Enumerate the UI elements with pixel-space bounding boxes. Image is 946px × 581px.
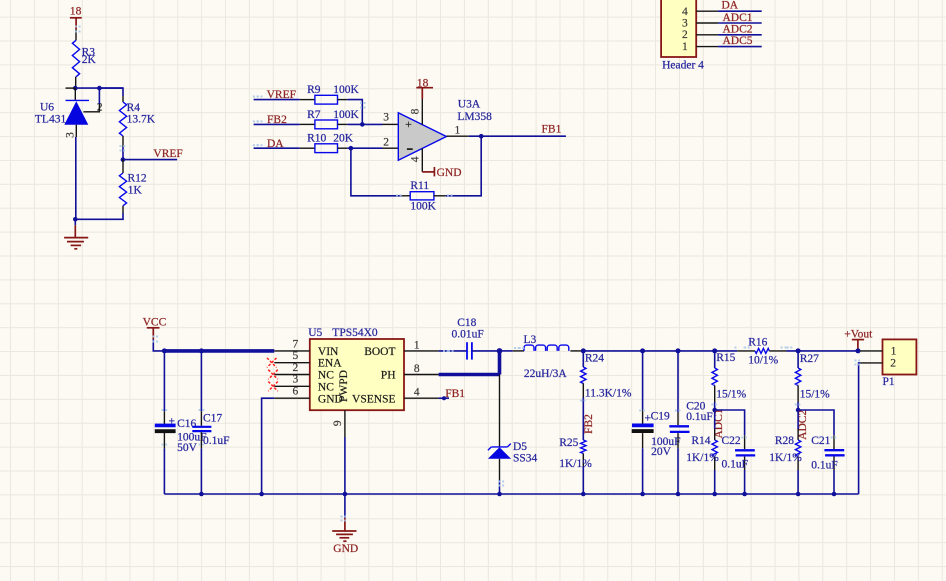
svg-text:FB1: FB1: [542, 123, 562, 135]
wire: [499, 459, 501, 494]
compile marks: [75, 26, 860, 522]
svg-text:ENA: ENA: [318, 358, 342, 370]
wire to D5: [499, 375, 501, 447]
wire: [254, 123, 315, 125]
wire pin3 of U6: [75, 125, 78, 220]
node junction rail R14: [712, 492, 717, 497]
svg-text:R12: R12: [128, 172, 147, 184]
svg-text:18: 18: [70, 6, 82, 18]
node junction C16: [162, 348, 167, 353]
wire feedback: [351, 148, 410, 196]
wire to R4: [99, 88, 123, 102]
capacitor C18: [439, 317, 500, 360]
svg-text:3: 3: [383, 112, 389, 124]
diode D5 SS34: [488, 441, 538, 465]
svg-text:VIN: VIN: [318, 346, 339, 358]
svg-text:ADC2: ADC2: [723, 24, 753, 36]
svg-text:ADC2: ADC2: [797, 410, 809, 440]
svg-text:2: 2: [293, 362, 299, 374]
svg-text:1: 1: [891, 346, 897, 358]
wire pin2 of U6: [83, 88, 99, 112]
svg-text:0.1uF: 0.1uF: [722, 459, 749, 471]
svg-text:TPS54X0: TPS54X0: [332, 327, 378, 339]
svg-text:GND: GND: [437, 167, 462, 179]
svg-text:SS34: SS34: [513, 453, 538, 465]
svg-text:C16: C16: [177, 418, 196, 430]
pin 2: [696, 34, 718, 36]
svg-text:VCC: VCC: [143, 316, 167, 328]
svg-text:0.1uF: 0.1uF: [686, 411, 713, 423]
svg-text:PH: PH: [381, 370, 396, 382]
op-amp U5 TPS54X0 body: [308, 327, 404, 410]
svg-text:15/1%: 15/1%: [716, 389, 746, 401]
node junction PH/BOOT: [497, 348, 503, 354]
wire L3 to R24 node: [570, 350, 581, 352]
svg-text:P1: P1: [883, 376, 895, 388]
resistor R27: [795, 351, 830, 410]
node junction: [349, 146, 354, 151]
wire output pin 1: [446, 135, 566, 137]
svg-text:R14: R14: [691, 435, 710, 447]
capacitor C17: [192, 351, 229, 494]
node ground junction: [73, 217, 78, 222]
svg-text:22uH/3A: 22uH/3A: [524, 368, 568, 380]
pin 6 GND: [274, 397, 310, 399]
svg-text:8: 8: [414, 363, 420, 375]
svg-text:NC: NC: [318, 381, 334, 393]
transistor U6 TL431: [35, 88, 103, 138]
pin 1 P1: [860, 350, 883, 352]
svg-text:BOOT: BOOT: [364, 346, 395, 358]
wire top rail right: [787, 350, 861, 352]
node junction ADC1: [712, 408, 717, 413]
resistor R15: [712, 351, 747, 410]
svg-text:2: 2: [383, 136, 389, 148]
wire BOOT to L3: [500, 350, 513, 352]
power port VCC: [143, 316, 167, 339]
svg-text:2: 2: [890, 358, 896, 370]
svg-text:100K: 100K: [410, 200, 436, 212]
svg-text:20K: 20K: [333, 133, 354, 145]
svg-text:R16: R16: [748, 337, 767, 349]
pin 3 NC: [274, 385, 310, 387]
node junction rail R25: [581, 492, 586, 497]
svg-text:GND: GND: [333, 543, 358, 555]
resistor R28: [769, 410, 802, 494]
svg-text:3: 3: [293, 374, 299, 386]
ground (left): [64, 219, 88, 249]
node junction rail C17: [199, 492, 204, 497]
node junction ADC2: [796, 408, 801, 413]
svg-text:FB2: FB2: [583, 414, 595, 434]
svg-text:0.1uF: 0.1uF: [811, 459, 838, 471]
connector P1: [883, 339, 917, 388]
wire ADC1: [718, 22, 762, 24]
capacitor C20: [669, 351, 712, 494]
svg-text:1: 1: [455, 124, 461, 136]
wire VREF: [123, 159, 177, 161]
svg-text:6: 6: [293, 386, 299, 398]
svg-text:U3A: U3A: [458, 99, 481, 111]
node junction 1: [73, 86, 78, 91]
svg-text:R28: R28: [775, 435, 794, 447]
svg-text:1K/1%: 1K/1%: [686, 452, 719, 464]
node junction rail C22: [742, 492, 747, 497]
svg-text:4: 4: [410, 156, 422, 162]
wire: [254, 99, 315, 101]
svg-text:C22: C22: [722, 435, 741, 447]
wire GND branch: [262, 398, 275, 494]
node junction rail C20: [676, 492, 681, 497]
resistor R4: [119, 102, 155, 136]
svg-text:D5: D5: [513, 441, 527, 453]
svg-text:FB1: FB1: [445, 388, 465, 400]
node junction rail R28: [796, 492, 801, 497]
svg-text:Header 4: Header 4: [662, 60, 704, 72]
wire: [75, 77, 77, 88]
svg-text:ADC1: ADC1: [723, 12, 753, 24]
pin 8 PH: [404, 374, 439, 376]
pin 4: [696, 10, 718, 12]
node junction R15: [712, 348, 717, 353]
no-connect X pin 3: [268, 382, 278, 392]
node junction R27: [796, 348, 801, 353]
svg-text:R9: R9: [307, 84, 321, 96]
wire pin 8: [421, 99, 423, 125]
pin 2 P1: [860, 362, 882, 364]
svg-text:8: 8: [409, 108, 421, 114]
svg-text:20V: 20V: [651, 446, 672, 458]
svg-text:VREF: VREF: [153, 148, 182, 160]
svg-text:NC: NC: [318, 370, 334, 382]
svg-text:1K: 1K: [128, 185, 143, 197]
svg-text:1: 1: [682, 41, 688, 53]
no-connect X pin 5: [267, 358, 277, 368]
svg-text:3: 3: [682, 17, 688, 29]
svg-text:C18: C18: [457, 317, 476, 329]
svg-text:R7: R7: [307, 109, 321, 121]
svg-text:VSENSE: VSENSE: [352, 393, 395, 405]
svg-text:+: +: [169, 415, 176, 427]
svg-text:R27: R27: [800, 353, 819, 365]
capacitor C22: [715, 410, 756, 494]
node junction rail D5: [497, 492, 502, 497]
svg-text:ADC5: ADC5: [723, 35, 753, 47]
resistor R12: [119, 172, 147, 205]
resistor R3: [72, 40, 96, 77]
node junction: [360, 122, 365, 127]
resistor R16: [737, 337, 786, 367]
node junction rail C19: [640, 492, 645, 497]
node junction C20: [676, 348, 681, 353]
ground GND (bottom): [332, 494, 358, 555]
wire cathode node: [75, 87, 123, 89]
svg-text:10/1%: 10/1%: [748, 355, 778, 367]
wire thick VIN: [164, 349, 274, 353]
power port 18 (left): [70, 6, 82, 30]
svg-text:4: 4: [414, 387, 420, 399]
capacitor C19: [632, 351, 681, 494]
node VREF junction: [121, 157, 126, 162]
node junction rail pin9: [343, 492, 348, 497]
power port GND (op-amp): [422, 167, 461, 179]
svg-text:2: 2: [682, 29, 688, 41]
connector Header 4: [661, 0, 704, 72]
pin 1 BOOT: [404, 350, 439, 352]
no-connect X pin 2: [268, 370, 278, 380]
node junction C19: [640, 348, 645, 353]
power port +Vout: [844, 329, 873, 351]
node junction: [479, 134, 484, 139]
svg-text:DA: DA: [722, 0, 739, 11]
svg-text:1: 1: [414, 339, 420, 351]
svg-text:R11: R11: [410, 180, 429, 192]
svg-text:U5: U5: [308, 327, 322, 339]
pin 5 ENA: [274, 362, 310, 364]
svg-text:3: 3: [64, 132, 76, 138]
node junction R24: [581, 348, 586, 353]
capacitor C16: [155, 351, 207, 494]
pin 9: [332, 410, 345, 494]
resistor R7: [307, 109, 359, 129]
wire ADC2: [718, 34, 762, 36]
resistor R11: [410, 180, 436, 212]
node junction rail C21: [832, 492, 837, 497]
svg-text:100K: 100K: [333, 84, 359, 96]
svg-text:50V: 50V: [177, 442, 198, 454]
inductor L3: [524, 334, 569, 380]
svg-text:0.1uF: 0.1uF: [203, 435, 230, 447]
wire FB1 stub: [439, 396, 449, 400]
wire top rail: [583, 350, 737, 352]
wire to op-amp pin 3: [338, 123, 399, 125]
svg-text:100K: 100K: [333, 109, 359, 121]
wire thick PH: [439, 351, 500, 375]
svg-text:R4: R4: [127, 102, 141, 114]
resistor R25: [559, 437, 592, 494]
pin 1: [696, 46, 718, 48]
svg-text:5: 5: [293, 350, 299, 362]
op-amp U3A: [398, 99, 492, 161]
power port 18 (op-amp): [416, 78, 433, 99]
pin 3: [696, 22, 718, 24]
resistor R14: [686, 410, 719, 494]
wire: [254, 147, 315, 149]
svg-text:0.01uF: 0.01uF: [452, 328, 484, 340]
wire DA: [718, 10, 762, 12]
wire ADC5: [718, 46, 762, 48]
capacitor C21: [798, 410, 845, 494]
svg-text:L3: L3: [524, 334, 537, 346]
wire VCC feed: [153, 339, 164, 351]
svg-text:R25: R25: [559, 437, 578, 449]
wire: [75, 206, 123, 220]
svg-text:LM358: LM358: [457, 111, 492, 123]
wire pin 4: [421, 148, 423, 172]
svg-text:1K/1%: 1K/1%: [559, 458, 592, 470]
svg-text:13.7K: 13.7K: [127, 114, 156, 126]
svg-text:+: +: [405, 119, 412, 131]
node junction C17: [199, 348, 204, 353]
svg-text:2K: 2K: [82, 54, 97, 66]
wire: [122, 136, 124, 160]
svg-text:R10: R10: [307, 133, 326, 145]
svg-text:C19: C19: [651, 410, 670, 422]
pin 4 VSENSE: [404, 397, 439, 399]
svg-text:4: 4: [682, 6, 688, 18]
wire: [338, 100, 363, 125]
resistor R9: [307, 84, 359, 104]
svg-text:C21: C21: [811, 435, 830, 447]
svg-text:PWPD: PWPD: [338, 370, 350, 402]
svg-text:C17: C17: [203, 413, 222, 425]
svg-text:U6: U6: [40, 102, 54, 114]
pin 7 VIN: [274, 350, 310, 352]
wire: [75, 29, 77, 40]
wire bottom rail: [164, 493, 858, 495]
node junction +Vout: [856, 348, 861, 353]
node junction 2: [97, 86, 102, 91]
resistor R24: [581, 351, 632, 440]
svg-text:R15: R15: [716, 352, 735, 364]
wire to op-amp pin 2: [338, 147, 399, 149]
svg-text:TL431: TL431: [35, 114, 67, 126]
svg-text:R24: R24: [585, 352, 604, 364]
svg-text:11.3K/1%: 11.3K/1%: [585, 388, 632, 400]
pin 2 NC: [274, 374, 310, 376]
resistor R10: [307, 133, 354, 153]
svg-text:15/1%: 15/1%: [800, 389, 830, 401]
node junction rail GND branch: [259, 492, 264, 497]
svg-text:7: 7: [293, 338, 299, 350]
wire: [122, 160, 124, 173]
svg-text:9: 9: [332, 420, 344, 426]
svg-text:1K/1%: 1K/1%: [769, 452, 802, 464]
wire: [434, 136, 481, 196]
wire P1 pin2 down: [859, 363, 861, 494]
